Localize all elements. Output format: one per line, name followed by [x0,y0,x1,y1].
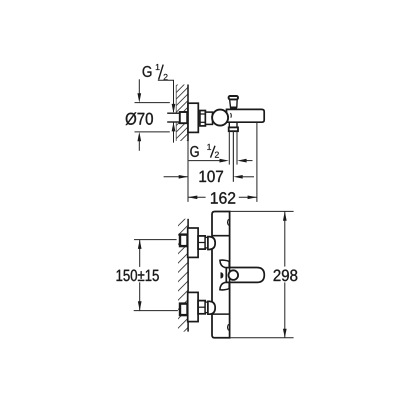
dimension d70: dimension line with outside arrows [138,79,140,95]
dimension 150+-15: dimension line with inside arrows [139,240,141,311]
dimension 162: dimension line with inside arrows [188,196,257,198]
label 150+-15 background [115,267,161,282]
wall hatching (side view) [165,67,195,202]
top connection: dome end [208,237,215,250]
dimension 107: left arrow outside [164,176,188,178]
dimension 298: extension lines [230,210,294,212]
body end mark arc [230,113,233,118]
label G-bot [190,146,198,157]
outlet G1/2 dimension right arrow with tail [237,159,246,163]
faucet body (side view) [227,109,265,122]
outlet neck below body [228,122,230,127]
bottom cap arc mark [228,324,229,330]
fraction slash top G1/2 [159,65,164,80]
label sup1-top [156,64,160,70]
connector sleeve [205,112,212,124]
label G-top [143,66,152,77]
top connection: escutcheon [188,228,198,257]
top connection: neck [205,237,208,248]
label sub2-top [164,74,168,80]
spout bottom fin [220,283,229,290]
dimension 298: dimension line with inside arrows [284,211,286,337]
faucet body column (plan view) [212,212,230,338]
top cap separation line [212,235,230,237]
pipe dimension arrow lower + tail [172,122,176,131]
top connection: union nut [198,236,205,249]
label 162 background [206,190,239,204]
bottom connection: neck [205,302,208,313]
supply pipe (G1/2 stub) [167,113,180,122]
label 107 [200,171,224,183]
label 150pm15 [117,270,159,282]
supply pipe mask [167,113,180,122]
diverter knob (side view) [229,96,238,109]
wall hatching (plan view) [168,206,198,348]
wall face extension line going down to dimensions [187,141,189,202]
diverter knob (plan view) [229,270,239,280]
bottom connection: escutcheon [188,292,198,321]
button mark on body [221,272,224,278]
outlet center extension line [232,131,234,182]
top cap arc mark [228,219,229,225]
bottom connection: union nut [198,301,205,314]
bottom connection: dome end [208,301,215,314]
union nut (side view) [200,111,206,126]
label sub2-bot [215,152,219,158]
dimension 150+-15: extension lines [134,239,177,241]
wall back edge [175,86,177,142]
label 298 [274,270,298,282]
label 162 [211,192,235,204]
pipe fitting in wall [180,112,187,123]
label O70 [126,112,153,125]
wall face line (plan) [187,219,189,332]
extension line for 162 (body front) [256,123,258,202]
label 298 background [271,267,299,283]
thermostat handle circle (side view) [212,110,228,126]
pipe dimension arrow upper [172,104,176,113]
outlet collar [229,127,238,131]
dimension 107: right arrow outside [233,175,242,179]
dimension d70: extension lines [135,102,170,104]
top connection: pipe fitting in wall [180,235,188,247]
outlet G1/2 dimension line left with arrow [189,160,222,162]
leader line for G 1/2 top [158,80,174,112]
bottom connection: pipe fitting in wall [180,304,188,316]
escutcheon (side view, d70) [188,103,198,132]
bottom cap separation line [212,313,230,315]
spout (plan view) [226,268,264,283]
fraction slash bottom G1/2 [211,146,216,158]
wall face line [187,85,189,142]
spout top fin [220,260,229,267]
outlet extension lines [228,131,230,164]
body edge through spout [229,268,231,283]
label sup1-bot [207,144,211,150]
